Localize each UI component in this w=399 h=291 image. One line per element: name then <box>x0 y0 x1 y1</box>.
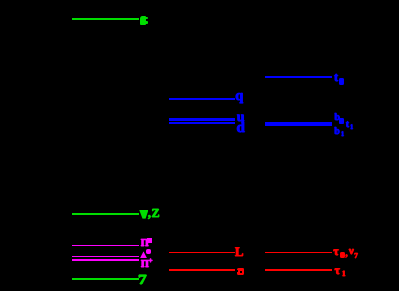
subscript 7 <box>354 255 358 257</box>
level line u (blue, upper of double) <box>169 118 235 120</box>
label gamma <box>138 280 147 282</box>
level line Pi-sq (magenta) <box>72 245 139 247</box>
label s <box>237 268 244 276</box>
label g <box>235 95 243 97</box>
subscript 8 blob <box>340 252 345 257</box>
level line L (red) <box>169 252 235 254</box>
label b of b2 <box>334 117 340 119</box>
label tau of tau1 <box>335 269 341 271</box>
label L <box>235 251 244 253</box>
label Pi of Pi+ <box>141 264 149 266</box>
label u <box>237 117 245 119</box>
label t of t2 <box>346 124 349 126</box>
level line s (red) <box>169 269 235 271</box>
label g subscript of t_g <box>339 78 345 85</box>
comma <box>345 253 348 255</box>
level line t_g (blue, upper right) <box>265 76 332 78</box>
label nu of nu7 <box>349 250 354 252</box>
level line b2/b1 (blue thick, right) <box>265 122 332 126</box>
level line Pi+ (magenta, lower of double) <box>72 259 139 261</box>
level line S (green, top) <box>72 18 139 20</box>
subscript of t2 <box>350 126 354 128</box>
level line gamma (green, bottom left) <box>72 278 139 280</box>
label Pi <box>141 243 149 245</box>
level line tau8,nu7 (red, right) <box>265 252 332 254</box>
label Delta <box>140 251 147 258</box>
level line g (blue, mid left) <box>169 98 235 100</box>
level line tau1 (red, right bottom) <box>265 269 332 271</box>
subscript 1 of b1 <box>341 133 345 135</box>
subscript 1 <box>342 273 346 275</box>
label tau of tau8 <box>333 250 339 252</box>
superscript round blob <box>146 249 151 254</box>
level line V,Z (green, mid left) <box>72 213 139 215</box>
label d <box>237 127 245 129</box>
level line Delta (magenta, upper of double) <box>72 256 139 258</box>
superscript square blob <box>147 238 152 243</box>
label t of t_g <box>334 76 338 78</box>
label V,Z <box>139 210 148 219</box>
subscript blob 2 of b2 <box>339 118 344 123</box>
label b of b1 <box>334 131 340 133</box>
label S <box>140 16 146 25</box>
level line d (blue, lower of double) <box>169 122 235 124</box>
superscript plus <box>148 260 153 262</box>
